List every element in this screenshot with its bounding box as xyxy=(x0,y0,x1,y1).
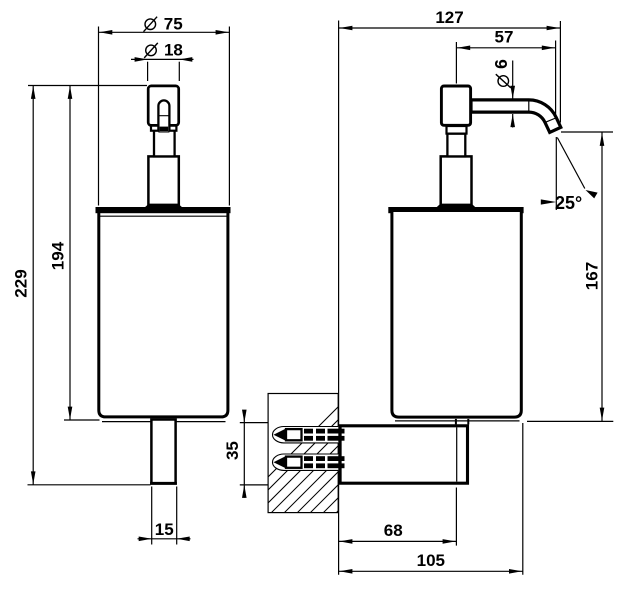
dim D18 extension ticks xyxy=(147,62,149,81)
dim 68 right extension xyxy=(455,488,457,546)
front view: lid underline xyxy=(100,215,228,217)
wall anchor 1 plug outline xyxy=(273,427,339,443)
side view: bracket-body connection xyxy=(455,419,457,425)
side view: body bottom shadow line xyxy=(395,420,520,422)
dim 68 line xyxy=(339,540,457,542)
svg-text:57: 57 xyxy=(495,28,514,47)
dim 25deg vertical reference line xyxy=(555,137,557,210)
side view: spout tube xyxy=(471,100,561,133)
dim D75 line xyxy=(99,31,230,33)
dim D18 line xyxy=(131,58,194,60)
svg-text:75: 75 xyxy=(164,14,183,33)
dim 194 bottom extension xyxy=(64,419,100,421)
dim D6 line and arrows xyxy=(512,61,514,99)
dim 229 bottom extension xyxy=(28,484,151,486)
front view: pump lower stem xyxy=(148,156,178,207)
svg-text:105: 105 xyxy=(417,551,445,570)
svg-text:35: 35 xyxy=(223,441,242,460)
wall anchor 2 screw tip xyxy=(274,456,286,468)
side view: pump mid stem xyxy=(447,134,465,157)
side view: lid underline xyxy=(393,215,521,217)
dim 57 line xyxy=(456,47,555,49)
side view: wall face / extension line xyxy=(338,21,340,575)
side view: bottle body outline xyxy=(392,212,521,417)
dim 105 right extension xyxy=(522,423,524,575)
dim 15 extension lines xyxy=(151,487,153,545)
svg-text:167: 167 xyxy=(582,262,601,290)
side view: lid band xyxy=(388,207,523,213)
svg-text:194: 194 xyxy=(49,241,68,270)
front view: body bottom shadow line xyxy=(102,421,226,423)
side view: wall outline xyxy=(268,394,338,513)
svg-text:18: 18 xyxy=(164,41,183,60)
svg-text:15: 15 xyxy=(155,520,174,539)
svg-text:25°: 25° xyxy=(555,193,582,213)
svg-text:229: 229 xyxy=(12,269,31,297)
front view: bottle body outline xyxy=(99,212,228,417)
dim 15 line xyxy=(138,538,191,540)
dim D75 label xyxy=(145,19,156,30)
dim 167 bottom extension xyxy=(527,420,613,422)
side view: bracket front plate line xyxy=(456,427,458,481)
front view: spout slot cross line xyxy=(159,115,169,117)
dim 57 extension lines xyxy=(455,42,457,84)
dim 167 top extension xyxy=(561,131,613,133)
front view: spout slot shadow xyxy=(160,127,169,132)
dim 25deg arrows xyxy=(541,199,557,204)
dim 25deg sloped line (spout axis) xyxy=(557,138,585,189)
wall anchor 1 screw shank box xyxy=(286,429,302,440)
front view: bottom outlet stem xyxy=(151,420,175,484)
front view: pump base flange xyxy=(141,204,187,211)
wall anchor 2 screw threads xyxy=(304,456,313,461)
dim 127 line xyxy=(339,27,561,29)
front view: pump head xyxy=(148,86,179,126)
front view: spout seen end-on (U slot) xyxy=(158,122,169,133)
dim 35 extension lines xyxy=(240,422,268,424)
dim 229 line xyxy=(32,86,34,485)
wall anchor 2 screw shank box xyxy=(286,457,302,468)
side view: pump collar xyxy=(447,126,467,134)
wall anchor 1 screw tip xyxy=(274,429,286,441)
front view: pump mid stem xyxy=(154,130,175,156)
spout joint line 2 xyxy=(545,118,555,122)
dim 194 top extension xyxy=(28,85,147,87)
spout joint line 1 xyxy=(528,101,530,111)
wall anchor 2 plug outline xyxy=(273,454,339,470)
svg-text:6: 6 xyxy=(491,59,511,69)
dim 194 line xyxy=(69,86,71,421)
side view: pump head xyxy=(441,86,470,125)
svg-text:68: 68 xyxy=(384,521,403,540)
dim 105 line xyxy=(339,570,523,572)
dim 35 line and arrows xyxy=(243,410,245,498)
dim D6 label xyxy=(491,59,511,88)
side view: mounting bracket xyxy=(340,426,467,483)
dim 127 right extension xyxy=(559,21,561,123)
side view: pump base flange xyxy=(433,204,480,211)
side view: pump lower stem xyxy=(441,156,472,207)
wall anchor 1 screw threads xyxy=(304,429,313,434)
dim D18 label xyxy=(146,45,157,56)
front view: pump collar xyxy=(151,125,176,130)
dim D75 extension lines xyxy=(98,27,100,206)
front view: dispenser lid band xyxy=(96,207,231,213)
dim 167 line xyxy=(601,133,603,422)
svg-text:127: 127 xyxy=(435,8,463,27)
